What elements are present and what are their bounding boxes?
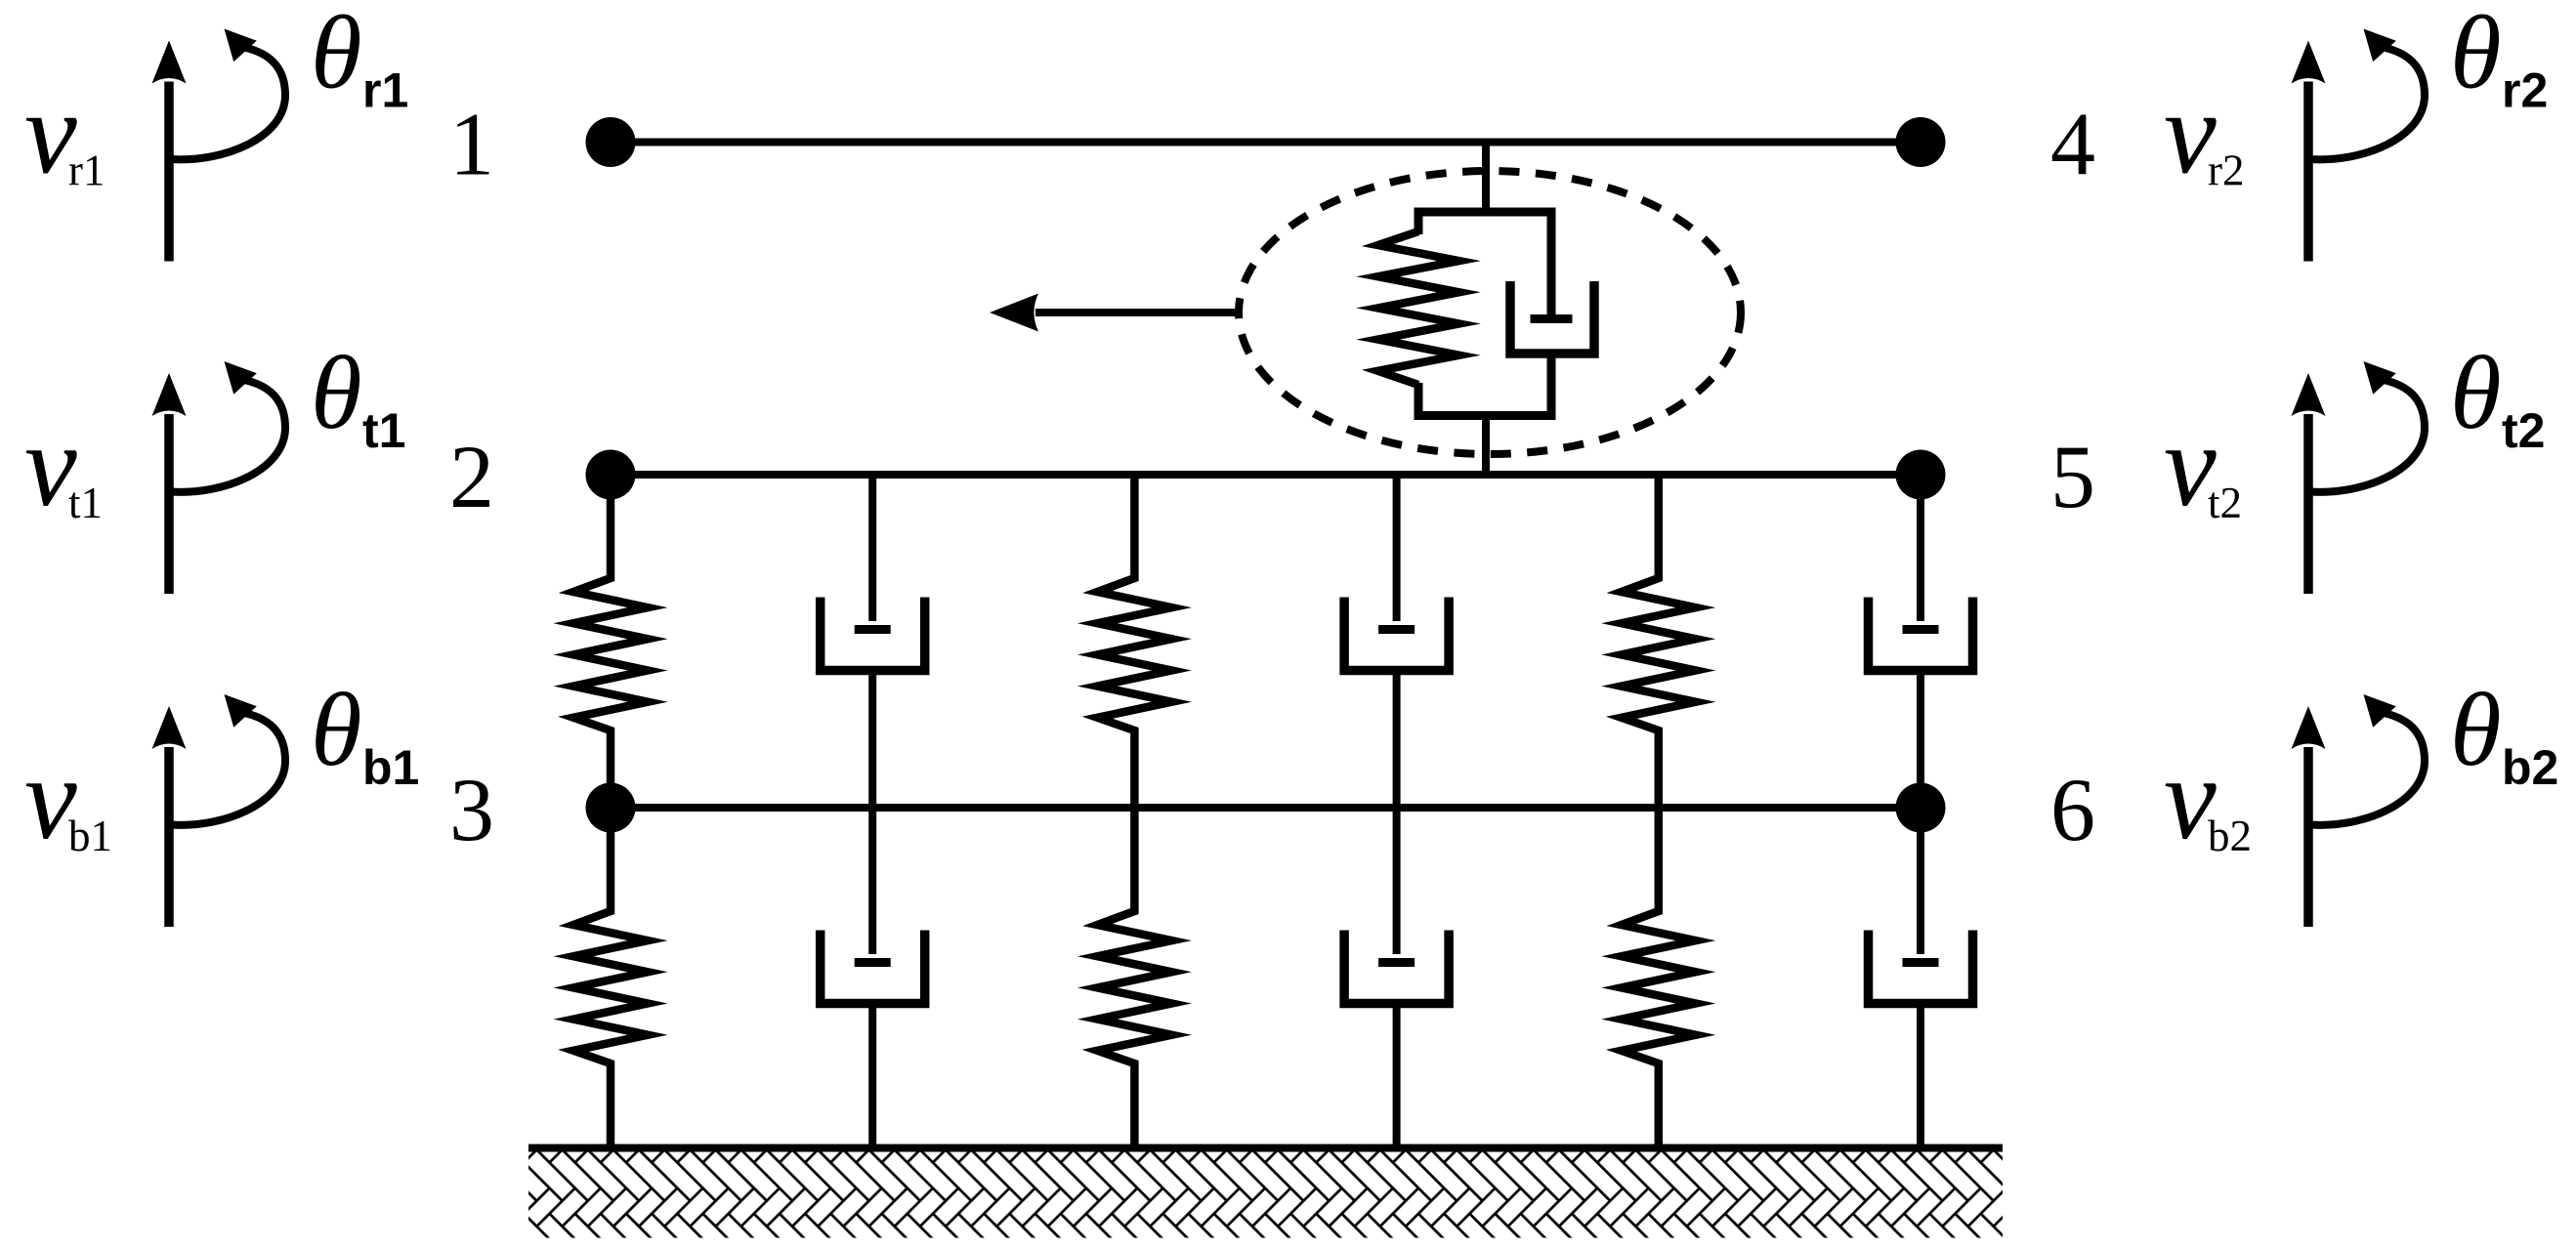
curved arrow theta_r2 (rotation dof) [2310, 48, 2425, 160]
curved arrow theta_b1 (rotation dof) [171, 713, 285, 825]
svg-text:θ: θ [311, 336, 362, 451]
svg-text:θ: θ [2450, 336, 2502, 451]
node 1 [586, 117, 636, 167]
svg-text:θ: θ [2450, 0, 2502, 111]
svg-text:r2: r2 [2502, 63, 2548, 118]
wire rail to railpad connector [1482, 143, 1490, 217]
railpad damper piston plate [1531, 314, 1573, 323]
svg-text:θ: θ [311, 0, 362, 111]
svg-text:3: 3 [449, 760, 494, 859]
svg-text:b2: b2 [2502, 740, 2558, 795]
damper c_t2 [1393, 475, 1401, 621]
wire railpad to tie connector [1482, 411, 1490, 475]
arrow v_t2 (translation dof) [2303, 414, 2313, 594]
arrow v_r2 (translation dof) [2303, 82, 2313, 262]
svg-text:r1: r1 [68, 146, 106, 195]
curved arrow theta_t2 (rotation dof) [2310, 380, 2425, 492]
svg-text:t2: t2 [2208, 479, 2242, 527]
spring k_b3 [1622, 808, 1696, 1148]
node 3 [586, 783, 636, 833]
node 2 [586, 450, 636, 500]
curved arrow theta_t1 (rotation dof) [171, 380, 285, 492]
arrow v_b1 (translation dof) [164, 747, 174, 927]
damper c_t1 [868, 475, 876, 621]
svg-text:θ: θ [311, 673, 362, 788]
ground hatch [528, 1152, 2003, 1238]
spring k_t1 [573, 475, 648, 808]
svg-text:r2: r2 [2208, 146, 2245, 195]
svg-text:b1: b1 [68, 812, 112, 860]
railpad frame bottom bar [1418, 352, 1551, 416]
arrow pointing left from ellipse [1035, 309, 1237, 316]
svg-text:1: 1 [449, 95, 494, 194]
svg-text:2: 2 [449, 427, 494, 526]
svg-text:θ: θ [2450, 673, 2502, 788]
arrow v_r1 (translation dof) [164, 82, 174, 262]
node 6 [1896, 783, 1946, 833]
ground line [528, 1145, 2003, 1152]
svg-text:t2: t2 [2502, 403, 2545, 458]
wire ballast beam (nodes 3-6) [611, 804, 1921, 812]
spring k_b1 [573, 808, 648, 1148]
dashed ellipse around railpad element [1239, 171, 1741, 454]
damper c_b2 [1393, 808, 1401, 954]
damper c_t3 [1917, 475, 1924, 621]
railpad damper cup [1510, 281, 1594, 354]
node 5 [1896, 450, 1946, 500]
svg-text:b1: b1 [362, 740, 419, 795]
railpad spring [1378, 231, 1459, 385]
svg-text:5: 5 [2050, 427, 2095, 526]
spring k_t2 [1097, 475, 1171, 808]
damper c_b1 [868, 808, 876, 954]
arrow v_b2 (translation dof) [2303, 747, 2313, 927]
wire tie beam (nodes 2-5) [611, 471, 1921, 479]
spring k_t3 [1622, 475, 1696, 808]
spring k_b2 [1097, 808, 1171, 1148]
svg-text:4: 4 [2050, 95, 2095, 194]
svg-text:r1: r1 [362, 63, 408, 118]
wire rail beam (nodes 1-4) [611, 139, 1921, 146]
damper c_b3 [1917, 808, 1924, 954]
arrow v_t1 (translation dof) [164, 414, 174, 594]
svg-text:6: 6 [2050, 760, 2095, 859]
curved arrow theta_r1 (rotation dof) [171, 48, 285, 160]
railpad frame top bar [1418, 212, 1551, 319]
svg-text:t1: t1 [68, 479, 103, 527]
svg-text:t1: t1 [362, 403, 405, 458]
svg-text:b2: b2 [2208, 812, 2252, 860]
node 4 [1896, 117, 1946, 167]
curved arrow theta_b2 (rotation dof) [2310, 713, 2425, 825]
